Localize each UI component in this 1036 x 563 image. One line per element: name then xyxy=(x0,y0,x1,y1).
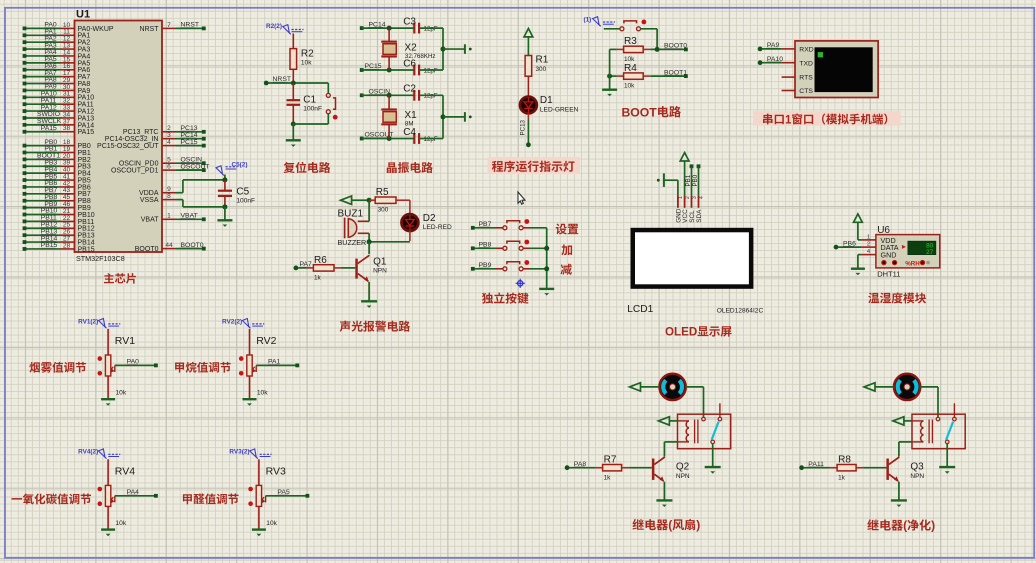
svg-text:R1: R1 xyxy=(536,55,549,66)
wire net PB14 to U1 pin 27 xyxy=(25,241,61,243)
wire net PA15 to U1 pin 38 xyxy=(25,131,61,133)
ground Q1 xyxy=(361,300,377,302)
U1 pin 8 VSSA wire to C5 xyxy=(162,199,176,201)
caption 加 xyxy=(561,244,572,255)
wire net PB15 to U1 pin 28 xyxy=(25,248,61,250)
caption 声光报警电路 (sound-light alarm) xyxy=(340,321,410,332)
svg-text:4: 4 xyxy=(699,196,705,199)
svg-text:100nF: 100nF xyxy=(236,197,255,204)
svg-text:C1: C1 xyxy=(303,95,316,106)
svg-text:RV2: RV2 xyxy=(256,335,276,347)
svg-text:2: 2 xyxy=(867,242,870,248)
svg-text:RV1(2): RV1(2) xyxy=(78,318,98,325)
svg-text:1: 1 xyxy=(167,213,171,220)
svg-text:BUZZER: BUZZER xyxy=(338,238,367,247)
wire net PA10 to U1 pin 31 xyxy=(25,96,61,98)
svg-text:C3: C3 xyxy=(403,16,416,27)
wire net PA0 to U1 pin 10 xyxy=(25,27,61,29)
power arrow VCC xyxy=(524,29,533,37)
potentiometer RV3 xyxy=(258,459,260,485)
svg-text:C4: C4 xyxy=(403,127,416,138)
wire pot bottom to ground xyxy=(107,376,109,398)
wire D2 down to node xyxy=(409,231,411,241)
relay blade xyxy=(712,422,719,440)
ground DHT11 xyxy=(851,268,865,270)
wire R5 to D2 xyxy=(396,199,410,201)
capacitor C4 xyxy=(413,133,415,144)
wire net PB6 to U1 pin 42 xyxy=(25,186,61,188)
svg-text:10k: 10k xyxy=(116,520,127,527)
svg-text:10k: 10k xyxy=(116,389,127,396)
svg-text:44: 44 xyxy=(165,242,173,249)
wire net PA11 to U1 pin 32 xyxy=(25,103,61,105)
caption OLED显示屏 xyxy=(665,326,732,339)
caption 减 xyxy=(561,264,572,275)
wire to ground xyxy=(292,124,294,140)
svg-text:X1: X1 xyxy=(405,110,418,121)
ground BOOT circuit xyxy=(602,88,617,90)
wire wiper to PA5 terminal xyxy=(266,495,308,497)
relay contacts xyxy=(702,417,706,421)
wire NRST to reset button xyxy=(327,83,329,93)
transistor Q1 NPN xyxy=(355,259,358,279)
ground below C5 xyxy=(217,219,232,221)
wire PA9 to RXD xyxy=(758,47,763,52)
caption 主芯片 (main chip) xyxy=(104,273,136,284)
svg-text:10k: 10k xyxy=(257,389,268,396)
transistor Q2 NPN xyxy=(652,459,655,480)
ground reset circuit xyxy=(286,139,301,141)
wire net PB11 to U1 pin 22 xyxy=(25,220,61,222)
resistor R7 xyxy=(565,465,570,470)
svg-text:8: 8 xyxy=(167,193,171,200)
svg-text:D1: D1 xyxy=(540,95,553,106)
power arrow motor xyxy=(630,383,641,391)
LCD1 OLED display body xyxy=(631,228,754,289)
wire wiper to PA4 terminal xyxy=(115,495,156,497)
svg-text:STM32F103C8: STM32F103C8 xyxy=(76,254,125,263)
wire node to Q1 collector xyxy=(368,242,370,254)
DHT11 display xyxy=(908,241,936,254)
motor fan xyxy=(659,374,685,400)
wire net PA6 to U1 pin 16 xyxy=(25,69,61,71)
power arrow relay coil xyxy=(658,417,669,425)
wire VCC pin xyxy=(684,161,686,195)
node OSCIN xyxy=(360,93,364,97)
svg-text:6: 6 xyxy=(167,164,171,171)
relay box xyxy=(912,414,965,449)
svg-text:3: 3 xyxy=(692,196,698,199)
svg-text:TXD: TXD xyxy=(799,60,813,67)
wire R7 to Q2 base xyxy=(622,467,629,469)
wire GND to ground xyxy=(858,254,862,256)
svg-text:C2: C2 xyxy=(403,84,416,95)
svg-text:D2: D2 xyxy=(423,213,436,224)
pin CTS stub xyxy=(782,90,795,92)
svg-text:PC13: PC13 xyxy=(520,119,527,135)
wire GND pin to earth terminal xyxy=(677,180,679,195)
DHT11 indicator dots xyxy=(882,261,886,265)
wire net PC14 from U1 pin 3 xyxy=(162,138,176,140)
caption 设置 xyxy=(556,224,579,235)
capacitor C3 xyxy=(413,23,415,34)
transistor Q3 NPN xyxy=(886,459,889,480)
resistor R1 xyxy=(525,56,532,77)
caption 复位电路 (reset circuit) xyxy=(284,162,331,173)
wire to boot button xyxy=(604,28,620,30)
svg-text:R2(2): R2(2) xyxy=(266,23,282,30)
relay box xyxy=(678,414,731,449)
op-amp U1 body (STM32F103C8 microcontroller) xyxy=(75,21,163,253)
svg-text:RV3: RV3 xyxy=(266,466,286,478)
svg-text:%RH: %RH xyxy=(905,260,920,267)
resistor R6 xyxy=(294,266,299,271)
wire R1 to D1 xyxy=(527,76,529,96)
svg-text:(1): (1) xyxy=(584,17,592,24)
svg-text:LED-RED: LED-RED xyxy=(423,224,452,231)
wire net PB9 to U1 pin 46 xyxy=(25,207,61,209)
wire supply to buzzer top pin xyxy=(368,200,370,221)
svg-text:1: 1 xyxy=(867,235,870,241)
svg-text:RV4(2): RV4(2) xyxy=(78,449,98,456)
svg-text:NPN: NPN xyxy=(676,473,690,480)
wire R2 to NRST node xyxy=(292,69,294,83)
svg-text:300: 300 xyxy=(536,66,547,73)
svg-text:Q2: Q2 xyxy=(676,462,690,473)
svg-text:R8: R8 xyxy=(838,455,851,466)
wire net SWDIO to U1 pin 34 xyxy=(25,117,61,119)
power arrow left xyxy=(341,196,352,204)
svg-text:27: 27 xyxy=(926,249,934,256)
power arrow motor xyxy=(864,383,875,391)
svg-text:C6: C6 xyxy=(403,58,416,69)
virtual terminal box xyxy=(795,41,878,98)
wire relay contact to ground xyxy=(946,444,948,467)
ground relay contact xyxy=(705,466,721,468)
wire net PB4 to U1 pin 40 xyxy=(25,172,61,174)
svg-text:R7: R7 xyxy=(604,455,617,466)
svg-text:R6: R6 xyxy=(314,255,327,266)
capacitor C2 xyxy=(413,90,415,101)
svg-text:100nF: 100nF xyxy=(303,106,322,113)
wire net BOOT0 from U1 pin 44 xyxy=(162,248,176,250)
power arrow OLED VCC xyxy=(680,153,689,161)
relay contacts xyxy=(936,417,940,421)
svg-text:R2: R2 xyxy=(301,49,314,60)
wire caps to earth bar xyxy=(419,94,443,96)
ground RV2 xyxy=(243,398,257,400)
capacitor C6 xyxy=(413,65,415,76)
svg-text:10k: 10k xyxy=(624,83,635,90)
svg-text:1k: 1k xyxy=(314,274,322,281)
wire net NRST from U1 pin 7 xyxy=(162,27,176,29)
ground RV4 xyxy=(101,528,115,530)
node OSCOUT xyxy=(360,137,364,141)
svg-text:38: 38 xyxy=(63,125,71,132)
capacitor C1 xyxy=(292,83,294,100)
svg-text:VBAT: VBAT xyxy=(141,217,159,224)
svg-text:Q1: Q1 xyxy=(373,256,387,267)
wire wiper to PA0 terminal xyxy=(115,364,156,366)
wire net PB5 to U1 pin 41 xyxy=(25,179,61,181)
svg-text:NPN: NPN xyxy=(373,268,387,275)
svg-text:4: 4 xyxy=(167,139,171,146)
node PC14 xyxy=(360,26,364,30)
svg-text:NRST: NRST xyxy=(139,26,159,33)
crystal X2 xyxy=(388,28,390,41)
wire net PB10 to U1 pin 21 xyxy=(25,214,61,216)
wire net PB1 to U1 pin 19 xyxy=(25,151,61,153)
push button PB9 xyxy=(471,267,475,271)
wire Q1 emitter to ground xyxy=(368,282,370,301)
wire net PA2 to U1 pin 12 xyxy=(25,41,61,43)
ground Q2 xyxy=(656,499,672,501)
wire net PA4 to U1 pin 14 xyxy=(25,55,61,57)
wire coil to Q3 collector xyxy=(899,441,912,443)
wire C1 bottom to reset button xyxy=(291,122,296,127)
svg-text:GND: GND xyxy=(881,251,897,260)
svg-text:U1: U1 xyxy=(76,9,90,21)
wire PA10 to TXD xyxy=(758,60,763,65)
wire button to BOOT0 net xyxy=(641,28,658,30)
svg-text:7: 7 xyxy=(167,22,171,29)
wire net PC15 from U1 pin 4 xyxy=(162,145,176,147)
svg-text:R5: R5 xyxy=(376,187,389,198)
svg-text:BUZ1: BUZ1 xyxy=(338,208,364,219)
ground relay contact xyxy=(939,466,955,468)
svg-text:LCD1: LCD1 xyxy=(627,304,653,315)
svg-text:VSSA: VSSA xyxy=(140,197,159,204)
wire net PB7 to U1 pin 43 xyxy=(25,193,61,195)
wire R3 to BOOT0 terminal xyxy=(643,48,650,50)
buzzer pin stubs xyxy=(358,220,369,222)
svg-text:1k: 1k xyxy=(838,474,846,481)
wire net PA12 to U1 pin 33 xyxy=(25,110,61,112)
svg-text:PB1: PB1 xyxy=(685,174,692,186)
svg-text:(: ( xyxy=(903,519,907,533)
wire net VBAT from U1 pin 1 xyxy=(162,218,176,220)
svg-text:28: 28 xyxy=(63,242,71,249)
svg-text:BOOT: BOOT xyxy=(622,105,658,119)
mouse cursor xyxy=(518,192,525,204)
svg-text:(: ( xyxy=(668,518,672,532)
wire pot bottom to ground xyxy=(107,506,109,528)
wire pot bottom to ground xyxy=(258,506,260,528)
caption 继电器(净化) (relay purify) xyxy=(867,519,935,533)
wire R4 to BOOT1 terminal xyxy=(643,75,650,77)
caption BOOT电路 xyxy=(622,105,681,119)
wire motor to relay contact xyxy=(686,386,704,388)
wire net PB8 to U1 pin 45 xyxy=(25,200,61,202)
wire wiper to PA1 terminal xyxy=(256,364,297,366)
caption 串口1窗口（模拟手机端） xyxy=(753,111,901,126)
potentiometer RV1 xyxy=(107,329,109,355)
wire R8 to Q3 base xyxy=(856,467,863,469)
svg-text:PC15-OSC32_OUT: PC15-OSC32_OUT xyxy=(97,143,159,150)
wire key bus to ground xyxy=(546,228,548,288)
wire motor to relay contact xyxy=(920,386,938,388)
svg-text:R3: R3 xyxy=(624,36,637,47)
earth terminal xyxy=(464,112,466,122)
svg-text:LED-GREEN: LED-GREEN xyxy=(540,106,579,113)
wire net PB13 to U1 pin 26 xyxy=(25,234,61,236)
LED D1 LED-GREEN xyxy=(520,97,537,114)
svg-text:PB15: PB15 xyxy=(78,246,95,253)
wire net PB0 to U1 pin 18 xyxy=(25,145,61,147)
svg-text:RTS: RTS xyxy=(799,75,813,82)
svg-text:RV3(2): RV3(2) xyxy=(229,449,249,456)
wire relay contact to ground xyxy=(712,444,714,467)
wire Q2 emitter to ground xyxy=(663,482,665,500)
svg-text:OLED12864I2C: OLED12864I2C xyxy=(717,308,764,315)
svg-text:SCL: SCL xyxy=(689,210,696,223)
svg-text:1: 1 xyxy=(785,114,792,126)
ground RV3 xyxy=(252,528,266,530)
svg-text:SDA: SDA xyxy=(696,209,703,223)
ground RV1 xyxy=(101,398,115,400)
push button PB8 xyxy=(471,246,475,250)
svg-text:RV1: RV1 xyxy=(115,335,135,347)
wire net SWCLK to U1 pin 37 xyxy=(25,124,61,126)
earth terminal xyxy=(464,44,466,54)
node PC15 xyxy=(360,68,364,72)
caption 甲烷值调节 (methane value adjust) xyxy=(175,362,231,373)
svg-text:): ) xyxy=(696,518,700,532)
svg-text:2: 2 xyxy=(685,196,691,199)
svg-text:OLED: OLED xyxy=(665,326,697,339)
resistor R8 xyxy=(799,465,804,470)
caption 继电器(风扇) (relay fan) xyxy=(632,518,700,532)
push button BOOT xyxy=(620,27,624,31)
capacitor C5 xyxy=(224,175,226,180)
power arrow DHT11 VDD xyxy=(854,214,863,222)
svg-text:10k: 10k xyxy=(624,56,635,63)
resistor R4 xyxy=(610,75,617,77)
wire net PA5 to U1 pin 15 xyxy=(25,62,61,64)
svg-text:1: 1 xyxy=(678,196,684,199)
motor fan xyxy=(894,374,920,400)
svg-text:): ) xyxy=(931,519,935,533)
svg-text:C5: C5 xyxy=(236,186,249,197)
wire to ground xyxy=(609,49,611,89)
svg-text:DHT11: DHT11 xyxy=(877,269,900,278)
wire caps to earth bar xyxy=(419,27,443,29)
potentiometer RV4 xyxy=(107,459,109,485)
wire net PA3 to U1 pin 13 xyxy=(25,48,61,50)
wire Q3 emitter to ground xyxy=(898,482,900,500)
svg-text:X2: X2 xyxy=(405,42,418,53)
wire net PA9 to U1 pin 30 xyxy=(25,89,61,91)
push button reset xyxy=(326,93,330,97)
crystal X1 xyxy=(388,95,390,109)
wire net PA7 to U1 pin 17 xyxy=(25,76,61,78)
wire net PA8 to U1 pin 29 xyxy=(25,83,61,85)
wire buzzer bottom pin to node xyxy=(368,233,370,242)
pin RTS stub xyxy=(782,76,795,78)
potentiometer RV2 xyxy=(249,329,251,355)
wire VDD xyxy=(857,222,859,240)
svg-text:RV2(2): RV2(2) xyxy=(222,318,242,325)
relay blade xyxy=(946,422,953,440)
caption 烟雾值调节 (smoke value adjust) xyxy=(29,362,86,373)
svg-text:RXD: RXD xyxy=(799,47,813,54)
U1 pin 9 VDDA wire to C5 xyxy=(162,192,176,194)
wire SDA to PB0 terminal xyxy=(697,164,701,168)
push button PB7 xyxy=(471,226,475,230)
power arrow relay coil xyxy=(893,417,904,425)
svg-text:10k: 10k xyxy=(266,520,277,527)
svg-text:1k: 1k xyxy=(604,474,612,481)
caption 独立按键 (independent keys) xyxy=(482,292,529,303)
svg-text:PA15: PA15 xyxy=(78,129,95,136)
wire PB6 to DATA xyxy=(834,245,839,250)
svg-text:10k: 10k xyxy=(301,60,312,67)
wire net BOOT1 to U1 pin 20 xyxy=(25,158,61,160)
svg-text:Q3: Q3 xyxy=(910,462,924,473)
caption 程序运行指示灯 (program running indicator) xyxy=(488,157,580,174)
caption 甲醛值调节 (formaldehyde value adjust) xyxy=(183,494,239,505)
LED D2 LED-RED xyxy=(402,214,419,231)
resistor R2 xyxy=(292,34,294,49)
svg-text:BOOT0: BOOT0 xyxy=(135,246,159,253)
svg-text:300: 300 xyxy=(378,207,389,214)
wire net PC13 from U1 pin 2 xyxy=(162,131,176,133)
caption 温湿度模块 (temperature-humidity module) xyxy=(868,292,926,303)
svg-text:RV4: RV4 xyxy=(115,466,135,478)
wire SCL to PB1 terminal xyxy=(690,164,694,168)
LCD1 pin stubs xyxy=(677,195,679,208)
caption 晶振电路 (crystal circuit) xyxy=(387,162,433,173)
svg-text:R4: R4 xyxy=(624,63,637,74)
svg-text:NPN: NPN xyxy=(910,473,924,480)
svg-text:C5(2): C5(2) xyxy=(232,162,248,169)
wire pot bottom to ground xyxy=(249,376,251,398)
wire C5 to ground xyxy=(224,207,226,220)
wire R6 to Q1 base xyxy=(334,267,341,269)
wire net PB3 to U1 pin 39 xyxy=(25,165,61,167)
resistor R3 xyxy=(610,48,617,50)
wire net PB12 to U1 pin 25 xyxy=(25,227,61,229)
ground Q3 xyxy=(891,499,907,501)
wire D1 to PC13 terminal xyxy=(527,113,529,119)
svg-text:CTS: CTS xyxy=(799,88,813,95)
ground keys xyxy=(539,288,554,290)
origin marker xyxy=(518,281,523,286)
wire net PA1 to U1 pin 11 xyxy=(25,34,61,36)
caption 一氧化碳值调节 (CO value adjust) xyxy=(12,493,92,504)
wire net OSCOUT from U1 pin 6 xyxy=(162,169,176,171)
resistor R5 xyxy=(367,198,372,203)
svg-text:PB0: PB0 xyxy=(692,174,699,186)
svg-text:OSCOUT_PD1: OSCOUT_PD1 xyxy=(111,168,159,175)
wire coil to Q2 collector xyxy=(664,441,677,443)
node NRST xyxy=(264,81,269,86)
wire net OSCIN from U1 pin 5 xyxy=(162,162,176,164)
